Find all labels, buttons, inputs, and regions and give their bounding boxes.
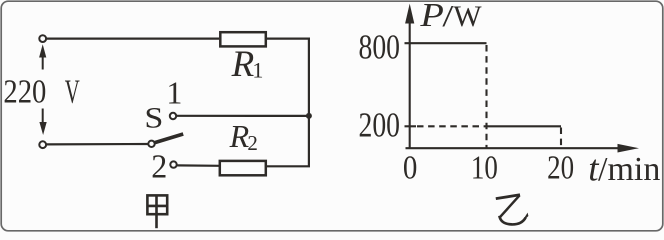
svg-text:0: 0 bbox=[403, 150, 418, 187]
svg-text:1: 1 bbox=[252, 58, 263, 83]
svg-text:1: 1 bbox=[166, 75, 182, 111]
svg-text:2: 2 bbox=[247, 131, 258, 155]
svg-text:10: 10 bbox=[471, 150, 498, 187]
svg-text:2: 2 bbox=[151, 148, 167, 185]
svg-text:P: P bbox=[419, 0, 444, 34]
svg-text:220: 220 bbox=[3, 74, 46, 111]
svg-text:W: W bbox=[453, 0, 482, 33]
svg-text:S: S bbox=[144, 102, 163, 135]
svg-text:V: V bbox=[65, 74, 80, 111]
svg-text:200: 200 bbox=[359, 106, 401, 145]
svg-text:800: 800 bbox=[359, 28, 401, 67]
svg-text:/: / bbox=[442, 0, 453, 33]
svg-text:/min: /min bbox=[598, 151, 660, 188]
svg-text:R: R bbox=[231, 44, 255, 85]
svg-text:20: 20 bbox=[547, 150, 574, 187]
